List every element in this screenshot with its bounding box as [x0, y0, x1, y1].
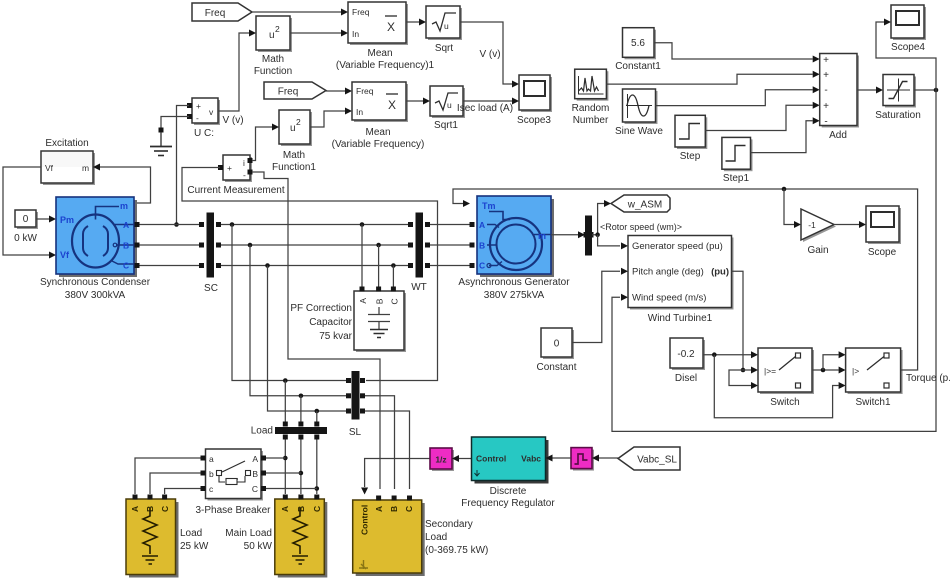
svg-text:SL: SL [349, 427, 362, 438]
svg-text:Wind Turbine1: Wind Turbine1 [648, 313, 713, 324]
svg-text:Sine Wave: Sine Wave [615, 126, 663, 137]
wire phase C bus SC to bus WT [221, 265, 410, 267]
svg-text:+: + [823, 101, 829, 112]
wire SL row C to Secondary Load C [365, 411, 410, 489]
wire Freq tag to Mean1 Freq input [252, 9, 348, 16]
svg-text:A: A [374, 506, 384, 512]
svg-text:Generator speed (pu): Generator speed (pu) [632, 241, 723, 252]
svg-text:3-Phase Breaker: 3-Phase Breaker [195, 505, 271, 516]
block Switch1 [846, 348, 903, 408]
svg-text:B: B [479, 241, 485, 251]
svg-text:Gain: Gain [807, 245, 828, 256]
wire Current Measurement i output to Math Function1 [252, 124, 279, 161]
svg-text:Function1: Function1 [272, 162, 316, 173]
wire Mean2 output to Sqrt1 [406, 98, 430, 105]
svg-text:Scope4: Scope4 [891, 42, 925, 53]
svg-text:Scope: Scope [868, 247, 897, 258]
source Sine Wave [615, 89, 663, 137]
wire control from 1/z to Secondary Load Control [361, 459, 430, 495]
svg-text:Main Load: Main Load [225, 528, 272, 539]
svg-text:Step: Step [680, 151, 701, 162]
svg-text:(Variable Frequency)1: (Variable Frequency)1 [336, 60, 435, 71]
svg-text:Freq: Freq [352, 7, 370, 17]
svg-text:C: C [123, 261, 129, 271]
svg-text:Function: Function [254, 66, 292, 77]
svg-text:Vabc_SL: Vabc_SL [637, 455, 677, 466]
wire junction up to Scope4 [876, 19, 936, 91]
wire phase A bus SC to bus WT [221, 224, 410, 226]
svg-text:PF Correction: PF Correction [290, 303, 352, 314]
rate transition block [571, 448, 594, 471]
wire U C: + down to phase A node [174, 106, 189, 227]
svg-text:Disel: Disel [675, 373, 697, 384]
wire phase B bus SC to bus WT [221, 244, 410, 246]
svg-text:Current Measurement: Current Measurement [187, 185, 284, 196]
wire phase B SC to bus SC [140, 244, 200, 246]
svg-text:Synchronous Condenser: Synchronous Condenser [40, 277, 151, 288]
svg-text:Control: Control [476, 454, 506, 464]
svg-text:Add: Add [829, 130, 847, 141]
wire DFR Control output to 1/z [452, 455, 472, 462]
svg-text:Excitation: Excitation [45, 138, 88, 149]
wire Step to Add input4 [705, 102, 819, 131]
svg-text:Number: Number [573, 115, 609, 126]
node phase A drop to SL row A [230, 222, 346, 380]
svg-text:Frequency Regulator: Frequency Regulator [461, 498, 555, 509]
svg-text:Load: Load [425, 532, 447, 543]
block PF Correction Capacitor [290, 287, 406, 353]
wire rate transition to DFR Vabc [546, 455, 572, 462]
svg-text:b: b [209, 469, 214, 479]
svg-text:50 kW: 50 kW [244, 541, 273, 552]
wire phase A bus WT to generator A [430, 224, 471, 226]
machine Synchronous Condenser [40, 197, 151, 301]
svg-text:Switch: Switch [770, 397, 799, 408]
svg-text:Wind speed (m/s): Wind speed (m/s) [632, 293, 706, 304]
svg-text:380V 300kVA: 380V 300kVA [65, 290, 126, 301]
bus bar SC [199, 213, 221, 295]
node SL row A to Load bus tap [283, 378, 288, 422]
wire Excitation Vf output to SC Vf input [3, 167, 56, 259]
scope Scope3 [517, 75, 552, 126]
svg-text:w_ASM: w_ASM [627, 200, 662, 211]
wire Saturation output junction [914, 88, 938, 93]
node phase B drop to PF capacitor B [376, 243, 381, 289]
wire Freq tag2 to Mean2 Freq input [326, 88, 352, 95]
block Discrete Frequency Regulator [461, 437, 555, 509]
svg-text:25 kW: 25 kW [180, 541, 209, 552]
svg-text:+: + [227, 163, 232, 173]
svg-text:B: B [375, 298, 385, 304]
svg-text:i: i [243, 158, 245, 168]
wire selector output node to w_ASM and Generator speed [592, 200, 682, 249]
wire Random Number to Add input2 [606, 71, 819, 84]
goto tag Freq (second) [264, 82, 326, 99]
goto tag w_ASM [611, 195, 670, 212]
svg-text:Saturation: Saturation [875, 110, 921, 121]
block Switch [758, 348, 814, 408]
wire Current Measurement + to SL bus row A [182, 168, 438, 381]
svg-text:Random: Random [572, 103, 610, 114]
svg-text:Capacitor: Capacitor [309, 317, 352, 328]
wire Sqrt1 output to Scope3 input2, node Isec load (A) [457, 98, 519, 115]
wire Sqrt output to Scope3 input1, node V (v) [460, 22, 519, 88]
svg-text:Constant1: Constant1 [615, 61, 661, 72]
block Sqrt [426, 6, 462, 54]
constant Constant 0 [536, 328, 576, 373]
svg-text:C: C [389, 298, 399, 304]
wire breaker c to Load 25kW C [165, 489, 201, 495]
wire phase B bus WT to generator B [430, 244, 471, 246]
svg-text:Pitch angle (deg): Pitch angle (deg) [632, 267, 704, 278]
svg-text:Step1: Step1 [723, 173, 750, 184]
wire SC m output to Excitation m input [93, 164, 151, 204]
svg-text:75 kvar: 75 kvar [319, 331, 352, 342]
block Mean (Variable Frequency) [332, 82, 425, 150]
wire Sine Wave to Add input3 [656, 86, 820, 105]
svg-text:-: - [243, 170, 246, 180]
svg-text:X: X [387, 20, 395, 34]
wire Disel to Switch input1 and Switch1 input3 [703, 351, 846, 418]
svg-text:SC: SC [204, 283, 218, 294]
wire Math Function1 output to Mean2 In [310, 108, 352, 128]
wire Load bus C down to Main Load C [315, 440, 320, 495]
wire phase C SC to bus SC [140, 265, 200, 267]
svg-text:U C:: U C: [194, 128, 214, 139]
machine Asynchronous Generator [458, 196, 570, 301]
svg-text:-: - [824, 85, 827, 96]
svg-text:A: A [280, 506, 290, 512]
wire breaker a to Load 25kW A [135, 458, 201, 494]
svg-text:0: 0 [554, 339, 560, 350]
source Step1 [722, 137, 753, 184]
node SL row C to Load bus tap [315, 409, 320, 422]
svg-text:V (v): V (v) [479, 49, 500, 60]
wire Current Measurement - down to Secondary Load A [252, 172, 380, 489]
svg-text:A: A [252, 454, 258, 464]
svg-text:In: In [356, 107, 363, 117]
svg-text:+: + [823, 70, 829, 81]
wire U C: - to ground [161, 117, 189, 131]
svg-text:Mean: Mean [367, 48, 392, 59]
svg-text:In: In [352, 29, 359, 39]
svg-text:Math: Math [262, 54, 284, 65]
block 3-Phase Breaker [195, 449, 271, 516]
svg-text:A: A [479, 220, 485, 230]
load block Secondary Load [353, 496, 489, 577]
wire breaker A to Load bus column A [266, 457, 285, 459]
svg-text:Freq: Freq [205, 8, 226, 19]
svg-text:-0.2: -0.2 [677, 349, 695, 360]
svg-text:Tm: Tm [482, 201, 496, 211]
scope Scope [866, 206, 901, 258]
node phase A drop to PF capacitor A [360, 222, 365, 289]
svg-text:Scope3: Scope3 [517, 115, 551, 126]
gain Gain -1 [801, 209, 836, 256]
block Add [820, 54, 859, 142]
wire U C: v output up to u^2 input [218, 30, 256, 112]
source Random Number [572, 69, 610, 126]
wire Mean1 output to Sqrt [406, 19, 426, 26]
wire Gain to Scope [834, 221, 866, 228]
svg-text:Math: Math [283, 150, 305, 161]
svg-text:Load: Load [251, 426, 273, 437]
svg-text:(pu): (pu) [711, 267, 729, 278]
wire phase A SC to bus SC [140, 224, 200, 226]
constant 0 kW [14, 210, 38, 244]
node SL row B to Load bus tap [299, 394, 304, 423]
svg-text:Asynchronous Generator: Asynchronous Generator [458, 277, 570, 288]
block Sqrt1 [430, 86, 465, 131]
svg-text:(0-369.75 kW): (0-369.75 kW) [425, 545, 488, 556]
svg-text:Control: Control [360, 505, 370, 535]
node phase C drop to PF capacitor C [391, 263, 396, 289]
svg-text:Sqrt1: Sqrt1 [434, 120, 458, 131]
wire Switch1 output torque feedback to Tm [453, 189, 950, 384]
svg-text:1/z: 1/z [435, 455, 446, 465]
svg-text:C: C [312, 506, 322, 512]
ground [150, 128, 172, 156]
load block Main Load 50 kW [225, 495, 327, 578]
svg-text:-: - [824, 117, 827, 128]
svg-text:0 kW: 0 kW [14, 233, 37, 244]
svg-text:C: C [404, 506, 414, 512]
block Saturation [875, 75, 921, 122]
wire u^2 output to Mean1 In input [290, 30, 348, 37]
svg-text:Freq: Freq [278, 87, 299, 98]
svg-text:X: X [388, 98, 396, 112]
wire phase C bus WT to generator C [430, 265, 471, 267]
svg-text:B: B [123, 241, 129, 251]
svg-text:Vf: Vf [45, 163, 54, 173]
wire Load bus A down to Main Load A [283, 440, 288, 495]
node phase B drop to SL row B [248, 243, 346, 396]
source Step [675, 115, 707, 162]
svg-text:Secondary: Secondary [425, 519, 473, 530]
svg-text:(Variable Frequency): (Variable Frequency) [332, 139, 425, 150]
svg-text:C: C [160, 506, 170, 512]
svg-text:Isec load (A): Isec load (A) [457, 103, 513, 114]
block Excitation [41, 138, 95, 185]
svg-text:Mean: Mean [365, 127, 390, 138]
wire junction down to Wind speed input [612, 90, 936, 431]
wire breaker B to Load bus column B [266, 472, 301, 474]
svg-text:-1: -1 [808, 220, 816, 230]
svg-text:A: A [123, 220, 129, 230]
svg-text:Switch1: Switch1 [855, 397, 890, 408]
unit delay 1/z [430, 448, 454, 471]
constant Constant1 5.6 [615, 28, 661, 72]
wire Load bus B down to Main Load B [299, 440, 304, 495]
wire SL row B to Secondary Load B [365, 396, 395, 489]
svg-text:A: A [130, 506, 140, 512]
svg-text:C: C [479, 261, 485, 271]
wire Add output to Saturation [857, 87, 883, 94]
wire Constant1 to Add input1 [654, 43, 820, 63]
svg-text:Freq: Freq [356, 86, 374, 96]
bus bar Load [251, 422, 327, 440]
svg-text:Pm: Pm [60, 215, 74, 225]
svg-text:B: B [252, 469, 258, 479]
wire Wind Turbine1 output to Switch input2 [729, 271, 758, 389]
bus selector rotor speed [584, 216, 594, 256]
svg-text:m: m [120, 201, 128, 211]
svg-text:a: a [209, 454, 214, 464]
wire generator m output to bus selector [551, 231, 585, 238]
svg-text:5.6: 5.6 [631, 38, 645, 49]
svg-text:V (v): V (v) [222, 115, 243, 126]
svg-text:C: C [252, 484, 258, 494]
block Math Function1 u^2 [272, 110, 316, 173]
block Math Function u^2 [254, 16, 292, 77]
wire Switch output to Switch1 inputs [812, 351, 846, 373]
svg-text:u: u [447, 100, 452, 110]
block U C: voltage measurement [187, 98, 244, 139]
svg-text:Load: Load [180, 528, 202, 539]
svg-text:-: - [196, 113, 199, 123]
wire 0 kW to Pm [36, 216, 56, 223]
svg-text:A: A [358, 298, 368, 304]
svg-text:u: u [290, 123, 296, 134]
svg-text:Sqrt: Sqrt [435, 43, 454, 54]
svg-text:<Rotor speed (wm)>: <Rotor speed (wm)> [600, 222, 682, 232]
svg-text:Vf: Vf [60, 250, 70, 260]
svg-text:WT: WT [411, 282, 427, 293]
block Mean (Variable Frequency)1 [336, 2, 435, 71]
svg-text:|>: |> [852, 366, 859, 376]
block Current Measurement [187, 155, 284, 196]
svg-text:|>=: |>= [764, 366, 776, 376]
svg-text:2: 2 [275, 24, 280, 34]
wire breaker C to Load bus column C [266, 488, 317, 490]
constant Disel -0.2 [670, 338, 705, 384]
svg-text:m: m [538, 231, 546, 241]
wire Vabc_SL tag to rate transition [592, 455, 618, 462]
wire breaker b to Load 25kW B [150, 473, 201, 494]
wire Constant to Pitch angle input [572, 268, 628, 343]
svg-text:Discrete: Discrete [490, 486, 527, 497]
svg-text:2: 2 [296, 117, 301, 127]
bus bar WT [408, 213, 430, 294]
goto tag Freq (top) [192, 3, 252, 21]
bus bar SL [346, 371, 365, 438]
scope Scope4 [891, 5, 926, 53]
load block Load 25 kW [126, 495, 209, 578]
svg-text:u: u [269, 30, 275, 41]
node phase C drop to SL row C [265, 263, 346, 411]
svg-text:380V 275kVA: 380V 275kVA [484, 290, 545, 301]
node torque to Gain branch [782, 187, 801, 228]
svg-text:Constant: Constant [536, 362, 576, 373]
svg-text:Torque (p.u: Torque (p.u [906, 373, 950, 384]
svg-text:m: m [82, 163, 89, 173]
svg-text:B: B [296, 506, 306, 512]
svg-text:Vabc: Vabc [521, 454, 541, 464]
svg-text:u: u [444, 21, 449, 31]
svg-text:0: 0 [23, 214, 29, 225]
svg-text:+: + [823, 55, 829, 66]
from tag Vabc_SL [618, 447, 680, 470]
wire Step1 to Add input5 [751, 117, 820, 152]
svg-text:+: + [196, 101, 201, 111]
svg-text:B: B [389, 506, 399, 512]
block Wind Turbine1 [628, 236, 734, 325]
